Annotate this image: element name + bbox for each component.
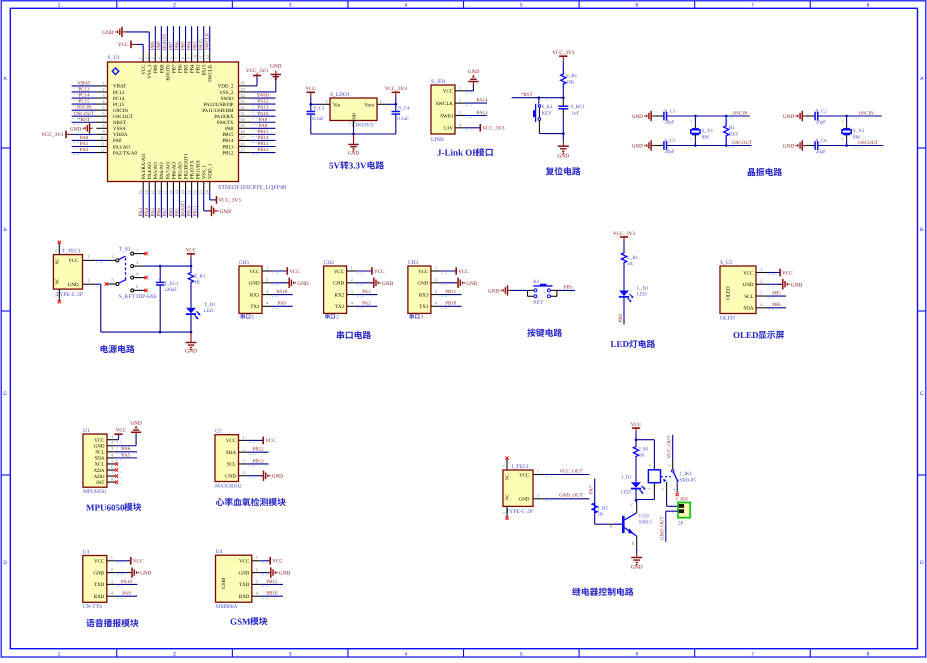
S_U2 pin 3 SCL [756, 295, 767, 297]
svg-text:20pF: 20pF [816, 120, 827, 126]
svg-text:PB11: PB11 [445, 289, 456, 295]
svg-text:PB5: PB5 [183, 64, 189, 73]
CH3 pin 4 TX3 [431, 305, 440, 307]
MCU right pin 25 PB12 [239, 152, 251, 154]
svg-text:VCC: VCC [458, 269, 469, 275]
ground above J-Link [472, 82, 474, 86]
svg-text:12: 12 [100, 147, 105, 152]
svg-text:PB3: PB3 [196, 64, 202, 73]
svg-text:OLED: OLED [726, 286, 732, 300]
U3 pin 1 VCC [107, 560, 116, 562]
wire VCC branch to relay coil [636, 439, 654, 441]
svg-text:GND: GND [102, 30, 113, 36]
svg-text:SDA: SDA [94, 456, 104, 462]
svg-text:SWCLK: SWCLK [205, 32, 211, 50]
net PA13 on J-Link pin3 [465, 115, 487, 117]
svg-text:VCC: VCC [631, 422, 642, 428]
svg-text:PB0: PB0 [168, 207, 174, 216]
svg-text:PA1/AO: PA1/AO [113, 144, 130, 150]
title power supply circuit [100, 345, 108, 353]
svg-text:GND: GND [519, 497, 530, 503]
svg-text:15: 15 [150, 189, 155, 194]
U3 pin 3 TXD [107, 583, 116, 585]
svg-text:1: 1 [256, 555, 258, 560]
U1 pin 6 XDA [107, 469, 115, 471]
U3 pin 4 RXD [107, 595, 116, 597]
svg-text:3.3V: 3.3V [349, 161, 367, 171]
svg-text:S_LDO1: S_LDO1 [330, 92, 350, 98]
CH1 pin 3 RX1 [262, 294, 271, 296]
MCU S_U1 STM32F103C8T6_LQFP48 body [108, 62, 239, 182]
MCU bottom pin 20 PB2/BOOT1 [185, 182, 187, 192]
module U4 SIM900A body [216, 555, 252, 602]
MCU top pin 10 PB3 [197, 52, 199, 62]
svg-text:VCC: VCC [443, 89, 454, 95]
svg-text:T_D1: T_D1 [204, 302, 216, 308]
svg-text:6: 6 [635, 652, 638, 658]
svg-text:S_C1: S_C1 [664, 109, 676, 115]
J-Link pin 4 3.3V [455, 127, 465, 129]
CH2 pin 3 RX2 [347, 294, 356, 296]
svg-text:PA5/AO: PA5/AO [153, 162, 159, 179]
svg-text:6: 6 [635, 3, 638, 9]
svg-text:3: 3 [667, 465, 672, 467]
svg-text:J_TEC1: J_TEC1 [511, 464, 529, 470]
svg-text:1: 1 [672, 504, 674, 509]
J_TEC1 bottom NC pin [506, 506, 508, 517]
svg-text:E: E [632, 541, 635, 546]
svg-text:S_Y1: S_Y1 [702, 128, 714, 134]
svg-text:OSCIN: OSCIN [732, 110, 747, 116]
MCU top pin 2 VSS_3 [148, 52, 150, 62]
net *RST wire [512, 97, 564, 99]
svg-text:11: 11 [199, 55, 204, 59]
svg-text:19: 19 [175, 189, 180, 194]
CH1 part name [240, 314, 245, 319]
svg-text:2: 2 [537, 493, 539, 498]
svg-text:23: 23 [199, 189, 204, 194]
svg-text:3: 3 [289, 3, 292, 9]
svg-text:T_R1: T_R1 [194, 274, 206, 280]
svg-text:PB8: PB8 [159, 64, 165, 73]
J-Link pin 3 SWIO [455, 114, 465, 116]
svg-text:VCC: VCC [782, 270, 793, 276]
svg-text:PB11/RX: PB11/RX [196, 160, 202, 180]
svg-text:2: 2 [459, 98, 461, 103]
power port VCC_3V3 at MCU VDD_2 [251, 85, 257, 87]
svg-text:2: 2 [760, 279, 762, 284]
ground at MCU VSS_2 [251, 91, 276, 93]
svg-text:S_U1: S_U1 [108, 55, 121, 61]
svg-text:GND: GND [382, 281, 393, 287]
svg-text:VCC_3V3: VCC_3V3 [41, 132, 64, 138]
svg-text:PA6: PA6 [122, 446, 131, 452]
resistor J_R2 1K [595, 523, 608, 525]
power port VCC at MPU6050 [114, 433, 122, 435]
svg-text:B: B [609, 524, 612, 529]
LDO output pin wire [377, 103, 387, 105]
svg-text:J_R1: J_R1 [639, 447, 650, 453]
svg-text:VCC: VCC [186, 248, 197, 254]
MCU bottom pin 16 PA6/AO [160, 182, 162, 192]
relay actuation dashed link [661, 476, 672, 478]
svg-text:6: 6 [54, 250, 59, 252]
svg-text:3: 3 [289, 652, 292, 658]
svg-text:PA11: PA11 [258, 105, 269, 111]
svg-text:PB13: PB13 [252, 458, 264, 464]
module U3 CN-TTS body [83, 556, 107, 603]
LDO gnd pin [353, 121, 355, 128]
svg-text:GND: GND [270, 64, 281, 70]
U1 pin 1 VCC [107, 439, 115, 441]
relay switch arm [672, 470, 674, 472]
U3 pin 2 GND [107, 572, 116, 574]
svg-text:PA5: PA5 [122, 452, 131, 458]
relay throw contacts [666, 482, 668, 494]
J-Link pin 2 SWCLK [455, 102, 465, 104]
svg-text:C: C [631, 503, 634, 508]
svg-text:PB12: PB12 [222, 150, 234, 156]
svg-text:0.1uF: 0.1uF [312, 116, 324, 122]
svg-text:1: 1 [111, 434, 113, 439]
svg-text:PA9/TX: PA9/TX [217, 120, 234, 126]
S_U2 pin 4 SDA [756, 307, 767, 309]
svg-text:GND: GND [557, 153, 569, 159]
svg-text:GND_OUT: GND_OUT [660, 516, 666, 540]
svg-text:RXD: RXD [239, 594, 250, 600]
T_TEC1 pin2 GND [83, 283, 96, 285]
svg-text:VSS_2: VSS_2 [219, 90, 234, 96]
svg-text:PB1/AO: PB1/AO [177, 162, 183, 180]
net PA14 on J-Link pin2 [465, 102, 487, 104]
svg-text:PB6: PB6 [174, 41, 180, 50]
MCU left pin 5 OSCIN [97, 109, 108, 111]
svg-text:1: 1 [252, 314, 255, 320]
wire J-Link pin1 to GND [465, 90, 473, 92]
svg-text:VCC_OUT: VCC_OUT [559, 468, 582, 474]
svg-text:1: 1 [58, 652, 61, 658]
resistor T_R1 1K [190, 266, 192, 272]
svg-text:PB9: PB9 [150, 41, 156, 50]
ground GND below LDO [353, 134, 355, 145]
MCU top pin 7 PB6 [179, 52, 181, 62]
svg-text:PB15: PB15 [257, 129, 269, 135]
svg-text:VBAT: VBAT [77, 81, 90, 87]
svg-text:U3: U3 [83, 549, 90, 555]
svg-text:14: 14 [144, 189, 149, 194]
svg-text:16: 16 [156, 189, 161, 194]
svg-text:PA15: PA15 [202, 64, 208, 75]
svg-text:1: 1 [459, 85, 461, 90]
svg-text:TXD: TXD [94, 582, 105, 588]
J-Link pin 1 VCC [455, 90, 465, 92]
svg-text:TYPE-C-2P: TYPE-C-2P [56, 292, 83, 298]
svg-text:ADO: ADO [94, 474, 105, 480]
svg-text:33: 33 [240, 99, 245, 104]
svg-text:J_JK1: J_JK1 [680, 471, 693, 477]
svg-text:PA3: PA3 [362, 289, 371, 295]
net PA7 wire [594, 479, 596, 503]
svg-text:VCC: VCC [334, 269, 345, 275]
svg-text:5: 5 [520, 3, 523, 9]
module CH1 body [239, 266, 262, 313]
MCU top pin 11 PA15 [203, 52, 205, 62]
svg-text:GND: GND [93, 570, 104, 576]
svg-text:BOOT1: BOOT1 [180, 200, 186, 217]
U4 pin 3 TXD [252, 583, 261, 585]
wire relay coil return [653, 483, 655, 495]
svg-text:5: 5 [54, 295, 59, 297]
MCU right pin 27 PB14 [239, 139, 251, 141]
LED L_D1 [619, 291, 629, 297]
T_TEC1 pin1 VCC [83, 259, 96, 261]
svg-text:VBAT: VBAT [113, 84, 126, 90]
wire gnd to key [511, 289, 527, 291]
MCU right pin 32 PA11/USB/DM [239, 109, 251, 111]
MCU right pin 33 PA12/USB/DP [239, 103, 251, 105]
svg-text:VCC: VCC [94, 559, 105, 565]
svg-text:GND: GND [632, 144, 643, 150]
svg-text:2: 2 [111, 440, 113, 445]
svg-text:TX1: TX1 [250, 304, 260, 310]
svg-text:1: 1 [243, 435, 245, 440]
svg-text:3.3V: 3.3V [443, 126, 453, 132]
svg-text:PB10: PB10 [266, 591, 278, 597]
wire GND to MCU top pin2 [126, 31, 149, 33]
svg-text:20pF: 20pF [816, 149, 827, 155]
svg-text:OSCOUT: OSCOUT [113, 114, 133, 120]
svg-text:LED: LED [637, 292, 647, 298]
svg-text:RX3: RX3 [419, 292, 429, 298]
svg-text:PB8: PB8 [156, 41, 162, 50]
svg-text:PB10: PB10 [445, 301, 457, 307]
svg-text:2: 2 [841, 137, 843, 141]
resistor S_R1 10K [561, 70, 566, 88]
svg-text:R1: R1 [729, 125, 735, 131]
svg-text:XDA: XDA [94, 468, 105, 474]
svg-text:PC13: PC13 [113, 90, 125, 96]
svg-text:SCL: SCL [227, 462, 236, 468]
svg-text:SDA: SDA [226, 450, 236, 456]
svg-text:SRD-05: SRD-05 [680, 478, 697, 484]
power circuit bottom rail wire [101, 331, 191, 333]
MCU left pin 10 PA0 [97, 139, 108, 141]
CH2 pin 4 TX2 [347, 305, 356, 307]
power port VCC_3V3 at J-Link pin4 [465, 127, 480, 129]
svg-text:GND: GND [418, 281, 429, 287]
MCU bottom pin 21 PB10/TX [191, 182, 193, 192]
svg-text:LED: LED [204, 308, 214, 314]
net PB1 key output [557, 289, 575, 291]
ground GND reset [562, 142, 564, 146]
module CH3 body [408, 266, 431, 313]
svg-text:CH2: CH2 [324, 260, 335, 266]
J_TEC1 pin2 GND to net GND_OUT [533, 498, 543, 500]
svg-text:1: 1 [138, 57, 143, 59]
svg-text:4: 4 [672, 489, 677, 491]
svg-text:GND: GND [68, 282, 79, 288]
svg-text:SCL: SCL [95, 450, 104, 456]
svg-text:S_RC1: S_RC1 [571, 104, 586, 110]
svg-text:26: 26 [240, 141, 245, 146]
svg-text:PB13: PB13 [257, 141, 269, 147]
svg-text:S_KFT DIP-6X6: S_KFT DIP-6X6 [119, 294, 157, 300]
MCU top pin 1 VCC [142, 52, 144, 62]
svg-text:VCC_3V3: VCC_3V3 [613, 231, 636, 237]
svg-text:VCC: VCC [289, 269, 300, 275]
svg-text:MPU6050: MPU6050 [86, 502, 125, 512]
svg-text:1: 1 [841, 119, 843, 123]
svg-text:31: 31 [240, 111, 245, 116]
svg-text:8: 8 [867, 652, 870, 658]
U1 pin 5 XCL [107, 463, 115, 465]
svg-text:PA2: PA2 [80, 147, 89, 153]
svg-text:LINK: LINK [431, 137, 444, 143]
svg-text:PA7/AO: PA7/AO [165, 162, 171, 179]
svg-text:4: 4 [404, 3, 407, 9]
svg-text:PB14: PB14 [257, 135, 269, 141]
svg-text:PA2/TX/A0: PA2/TX/A0 [113, 150, 137, 156]
svg-text:NRST: NRST [113, 120, 126, 126]
wire MCU VSS_1 to GND [203, 192, 205, 211]
svg-text:PB10/TX: PB10/TX [190, 160, 196, 180]
svg-text:1: 1 [102, 81, 104, 86]
svg-text:2: 2 [144, 57, 149, 59]
MCU bottom pin 22 PB11/RX [197, 182, 199, 192]
svg-text:VCC_3V3: VCC_3V3 [385, 86, 408, 92]
svg-text:C: C [3, 391, 7, 397]
svg-text:RES: RES [729, 131, 738, 137]
svg-text:OSCIN: OSCIN [859, 110, 874, 116]
svg-text:SWIO: SWIO [440, 113, 453, 119]
svg-text:1: 1 [760, 267, 762, 272]
U4 pin 2 GND [252, 572, 261, 574]
wire LED to collector node [635, 489, 637, 501]
svg-text:VDD_1: VDD_1 [208, 163, 214, 179]
svg-text:VCC: VCC [133, 559, 144, 565]
MCU top pin 12 SWCLK [209, 52, 211, 62]
svg-text:2: 2 [111, 567, 113, 572]
svg-text:PB2/BOOT1: PB2/BOOT1 [183, 153, 189, 180]
svg-text:PA13: PA13 [477, 110, 488, 116]
svg-text:OSCIN: OSCIN [113, 108, 128, 114]
MCU right pin 31 PA10/RX [239, 115, 251, 117]
svg-text:PA4: PA4 [144, 208, 150, 217]
svg-text:SCL: SCL [744, 294, 753, 300]
svg-text:PB11: PB11 [192, 205, 198, 216]
MCU bottom pin 15 PA5/AO [154, 182, 156, 192]
svg-text:TXD: TXD [239, 582, 250, 588]
svg-text:GND: GND [631, 565, 643, 571]
svg-text:PB0/AO: PB0/AO [171, 162, 177, 180]
wire connector pin2 to GND_OUT [666, 510, 678, 512]
svg-text:T_EC1: T_EC1 [164, 281, 179, 287]
svg-text:PA2: PA2 [362, 301, 371, 307]
capacitor S_C3 0.1uF [310, 104, 312, 111]
svg-text:7: 7 [751, 3, 754, 9]
svg-text:8M: 8M [853, 134, 861, 140]
svg-text:1: 1 [349, 121, 351, 126]
svg-text:VSS_3: VSS_3 [147, 64, 153, 79]
svg-text:GND: GND [94, 444, 105, 450]
reset bottom rail wire [539, 133, 563, 135]
wire relay contact to connector pin1 [666, 494, 668, 506]
svg-text:PA3: PA3 [138, 208, 144, 217]
svg-text:2: 2 [380, 99, 382, 104]
svg-text:10: 10 [193, 54, 198, 59]
svg-text:TX2: TX2 [335, 304, 345, 310]
svg-text:1K: 1K [639, 453, 646, 459]
svg-text:PB7: PB7 [171, 64, 177, 73]
svg-text:PA15: PA15 [199, 39, 205, 50]
svg-text:PA10: PA10 [258, 111, 269, 117]
svg-text:GND: GND [488, 288, 499, 294]
S_U2 pin 1 VCC [756, 272, 767, 274]
svg-text:*RST: *RST [521, 92, 533, 98]
J-Link connector S_JD1 body [431, 85, 455, 134]
svg-text:11: 11 [100, 141, 104, 146]
svg-text:1: 1 [266, 265, 268, 270]
T_TEC1 top NC pin [58, 244, 60, 255]
svg-text:LED: LED [621, 490, 631, 496]
CH3 part name [409, 314, 414, 319]
U1 pin 7 ADO [107, 475, 115, 477]
LDO input pin wire [320, 103, 330, 105]
title serial port circuit [337, 331, 344, 339]
resistor L_R1 1K [621, 252, 626, 264]
svg-text:OSCOUT: OSCOUT [732, 140, 752, 146]
title reset circuit [546, 167, 554, 175]
svg-text:8: 8 [867, 3, 870, 9]
MCU bottom pin 18 PB0/AO [172, 182, 174, 192]
svg-text:5: 5 [520, 652, 523, 658]
svg-text:GND: GND [466, 281, 477, 287]
svg-text:VCC: VCC [418, 269, 429, 275]
U4 pin 1 VCC [252, 560, 261, 562]
U2 pin 2 SDA [239, 451, 248, 453]
svg-text:VCC_3V3: VCC_3V3 [246, 68, 269, 74]
svg-text:PC14: PC14 [78, 93, 90, 99]
svg-text:6: 6 [501, 465, 506, 467]
svg-text:PB10: PB10 [186, 205, 192, 217]
svg-text:PB5: PB5 [180, 41, 186, 50]
svg-text:L_D1: L_D1 [637, 286, 649, 292]
svg-text:PB0: PB0 [618, 313, 624, 322]
svg-text:PB13: PB13 [222, 144, 234, 150]
svg-text:GND: GND [238, 570, 249, 576]
svg-text:J_JD1: J_JD1 [676, 497, 689, 503]
pushbutton K1 KEY [527, 289, 535, 291]
LDO ground rail wire [311, 133, 396, 135]
CH1 pin 4 TX1 [262, 305, 271, 307]
svg-text:20pF: 20pF [664, 149, 675, 155]
svg-text:CH1: CH1 [239, 260, 250, 266]
svg-text:PB6: PB6 [772, 302, 781, 308]
svg-text:VCC: VCC [239, 559, 250, 565]
svg-text:PA9: PA9 [122, 591, 131, 597]
svg-text:PA12: PA12 [258, 99, 269, 105]
svg-text:30: 30 [240, 117, 245, 122]
svg-text:8M: 8M [702, 134, 710, 140]
CH3 pin 1 VCC [431, 270, 440, 272]
capacitor S_RC1 1uF [562, 98, 564, 106]
U2 pin 4 GND [239, 475, 248, 477]
svg-text:OSCIN: OSCIN [76, 105, 91, 111]
svg-text:PB12: PB12 [252, 447, 264, 453]
svg-text:RX1: RX1 [250, 292, 260, 298]
svg-text:SIM900A: SIM900A [216, 604, 238, 610]
svg-text:GND: GND [249, 281, 260, 287]
